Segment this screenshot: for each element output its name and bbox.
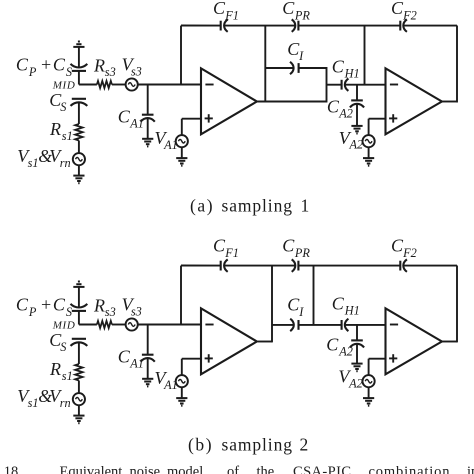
op-amp A1 <box>201 308 257 374</box>
svg-text:A2: A2 <box>338 106 353 120</box>
wire MID to Rs3 <box>79 84 97 86</box>
svg-text:C: C <box>391 236 404 256</box>
wire <box>356 104 358 126</box>
resistor Rs1 <box>75 364 82 381</box>
capacitor CP+CS <box>71 64 88 71</box>
wire A1 output <box>258 341 272 343</box>
wire output up to rail <box>271 266 273 343</box>
wire <box>78 141 80 154</box>
label CF1 <box>213 0 239 22</box>
svg-text:s3: s3 <box>131 305 142 319</box>
wire <box>78 311 80 325</box>
wire CH1 to op-amp A2 inverting input <box>345 84 386 86</box>
wire CI to CH1 <box>299 324 342 326</box>
wire VA2 to op-amp A2 non-inverting input <box>369 358 386 360</box>
wire <box>78 47 80 68</box>
label CP+CS <box>16 295 72 320</box>
svg-text:C: C <box>213 236 226 256</box>
source VA2 <box>363 375 375 387</box>
capacitor CA2 <box>350 100 364 107</box>
wire rail junction down to A2 input node <box>364 26 366 85</box>
wire rail segment <box>224 25 295 27</box>
wire Ct branch left <box>265 67 293 69</box>
label CA1 <box>118 106 144 130</box>
svg-text:C: C <box>327 96 340 116</box>
svg-text:18.EquivalentnoisemodeloftheCS: 18.EquivalentnoisemodeloftheCSA-PICcombi… <box>4 464 474 474</box>
svg-text:C: C <box>391 0 404 18</box>
svg-text:S: S <box>66 305 72 319</box>
wire output up to rail (CF2 feedback) <box>456 26 458 103</box>
ground <box>363 398 374 406</box>
resistor Rs3 <box>97 81 112 88</box>
wire Ct branch right <box>299 67 327 69</box>
op-amp A2 <box>386 68 442 134</box>
wire <box>368 387 370 398</box>
svg-text:rn: rn <box>60 396 71 410</box>
wire Vs3 to op-amp A1 inverting input <box>138 84 201 86</box>
resistor Rs1 <box>75 124 82 141</box>
svg-text:rn: rn <box>60 156 71 170</box>
label CA1 <box>118 346 144 370</box>
label CH1 <box>332 56 360 80</box>
wire <box>181 387 183 398</box>
source Vs3 <box>126 78 138 90</box>
svg-text:(a)sampling1: (a)sampling1 <box>190 195 309 215</box>
wire CH1 to op-amp A2 inverting input <box>345 324 386 326</box>
wire CA1 tap <box>147 325 149 355</box>
svg-text:C: C <box>332 294 345 314</box>
svg-text:S: S <box>60 100 66 114</box>
svg-text:s3: s3 <box>105 65 116 79</box>
svg-text:C: C <box>16 295 29 315</box>
label Vs1&Vrn <box>17 146 70 170</box>
svg-text:H1: H1 <box>344 66 360 80</box>
svg-text:I: I <box>298 305 304 319</box>
svg-text:A1: A1 <box>129 116 144 130</box>
wire short vertical <box>326 67 328 103</box>
label CPR <box>282 0 310 22</box>
svg-text:C: C <box>326 334 339 354</box>
svg-text:C: C <box>16 55 29 75</box>
wire output up to rail (CF2 feedback) <box>456 266 458 343</box>
svg-text:s1: s1 <box>28 156 39 170</box>
wire Vs3 to op-amp A1 inverting input <box>138 324 201 326</box>
wire VA1 to op-amp A1 non-inverting input <box>182 118 201 120</box>
label Vs3 <box>122 55 142 79</box>
svg-text:I: I <box>298 49 304 63</box>
svg-text:C: C <box>53 295 66 315</box>
capacitor CH1 <box>342 319 349 331</box>
wire <box>112 84 126 86</box>
svg-text:(b)sampling2: (b)sampling2 <box>188 435 308 455</box>
wire VA2 to op-amp A2 non-inverting input <box>369 118 386 120</box>
capacitor CI (reset) <box>290 62 299 74</box>
svg-text:A2: A2 <box>338 344 353 358</box>
ground <box>176 398 187 406</box>
svg-text:C: C <box>282 0 295 18</box>
wire rail junction down to CI/CH1 node <box>313 266 315 325</box>
label CF2 <box>391 236 417 260</box>
label CP+CS <box>16 55 72 80</box>
label VA2 <box>338 367 362 391</box>
svg-text:A1: A1 <box>163 378 178 392</box>
wire to CH1 <box>327 84 342 86</box>
capacitor CH1 <box>342 79 349 91</box>
node MID <box>52 79 76 91</box>
capacitor CPR <box>292 259 299 271</box>
ground <box>73 416 84 424</box>
label Rs1 <box>49 119 73 143</box>
wire rail segment <box>298 25 400 27</box>
svg-text:A1: A1 <box>163 138 178 152</box>
label CI <box>287 295 304 319</box>
wire input node up to feedback rail <box>180 26 182 85</box>
label VA2 <box>339 128 363 152</box>
ground <box>142 379 153 387</box>
wire <box>78 102 80 124</box>
svg-text:F1: F1 <box>224 8 239 22</box>
label CA2 <box>327 96 353 120</box>
svg-text:P: P <box>28 65 37 79</box>
label Vs1&Vrn <box>17 386 70 410</box>
wire <box>78 381 80 394</box>
wire <box>368 147 370 158</box>
wire VA1 to op-amp A1 non-inverting input <box>182 358 201 360</box>
svg-text:F1: F1 <box>224 246 239 260</box>
wire to CI <box>272 324 294 326</box>
label CPR <box>282 236 310 260</box>
capacitor CF1 <box>221 19 228 31</box>
wire CA2 tap <box>356 85 358 101</box>
capacitor CA1 <box>141 115 155 122</box>
wire A1 output <box>257 101 327 103</box>
source Vs1&Vrn <box>73 393 85 405</box>
wire <box>181 147 183 158</box>
wire rail segment <box>224 265 295 267</box>
wire <box>112 324 126 326</box>
ground <box>142 139 153 147</box>
wire input node up to feedback rail <box>180 266 182 325</box>
svg-text:C: C <box>332 56 345 76</box>
source VA1 <box>176 375 188 387</box>
label CS <box>49 90 66 114</box>
op-amp A1 <box>201 68 257 134</box>
capacitor CS <box>71 99 88 106</box>
wire CA2 tap <box>356 325 358 341</box>
inverted ground (sensor top plate) <box>73 42 84 47</box>
svg-text:F2: F2 <box>402 246 417 260</box>
source VA1 <box>176 135 188 147</box>
svg-text:s1: s1 <box>28 396 39 410</box>
wire CA1 tap <box>147 85 149 115</box>
wire <box>78 71 80 85</box>
wire rail segment <box>403 25 457 27</box>
wire <box>78 287 80 308</box>
svg-text:F2: F2 <box>402 8 417 22</box>
wire <box>78 405 80 415</box>
label Vs3 <box>122 295 142 319</box>
svg-text:s1: s1 <box>62 369 73 383</box>
wire <box>78 165 80 175</box>
source Vs3 <box>126 318 138 330</box>
svg-text:+: + <box>40 55 52 75</box>
label CF1 <box>213 236 239 260</box>
op-amp A2 <box>386 308 442 374</box>
capacitor CA2 <box>350 340 364 347</box>
ground <box>351 126 362 134</box>
wire A2 output <box>442 101 457 103</box>
svg-text:R: R <box>93 295 105 315</box>
node MID <box>52 319 76 331</box>
label CI <box>287 39 304 63</box>
wire <box>147 118 149 139</box>
svg-text:A1: A1 <box>129 356 144 370</box>
label CF2 <box>391 0 417 22</box>
label Rs1 <box>49 359 73 383</box>
capacitor CPR <box>292 19 299 31</box>
wire rail junction down to Ct branch and A1 output <box>264 26 266 102</box>
svg-text:+: + <box>40 295 52 315</box>
wire A2 output <box>442 341 457 343</box>
wire <box>147 358 149 379</box>
wire rail segment <box>298 265 400 267</box>
capacitor CP+CS <box>71 304 88 311</box>
label Rs3 <box>93 55 116 79</box>
capacitor CF2 <box>400 19 407 31</box>
wire rail segment <box>181 265 221 267</box>
capacitor CS <box>71 339 88 346</box>
svg-text:P: P <box>28 305 37 319</box>
resistor Rs3 <box>97 321 112 328</box>
svg-text:A2: A2 <box>349 138 364 152</box>
capacitor CF2 <box>400 259 407 271</box>
svg-text:s3: s3 <box>105 305 116 319</box>
wire <box>78 342 80 364</box>
label Rs3 <box>93 295 116 319</box>
label CA2 <box>326 334 353 358</box>
svg-text:PR: PR <box>294 246 311 260</box>
ground <box>351 364 362 372</box>
wire MID to Rs3 <box>79 324 97 326</box>
svg-text:H1: H1 <box>344 304 360 318</box>
svg-text:s1: s1 <box>62 129 73 143</box>
label VA1 <box>155 128 178 152</box>
label VA1 <box>155 368 178 392</box>
svg-text:R: R <box>93 55 105 75</box>
capacitor CF1 <box>221 259 228 271</box>
ground <box>176 158 187 166</box>
wire rail segment <box>403 265 457 267</box>
label CS <box>49 330 66 354</box>
svg-text:C: C <box>282 236 295 256</box>
svg-text:S: S <box>60 340 66 354</box>
label CH1 <box>332 294 360 318</box>
svg-text:s3: s3 <box>131 65 142 79</box>
wire rail segment <box>181 25 221 27</box>
svg-text:S: S <box>66 65 72 79</box>
capacitor CA1 <box>141 355 155 362</box>
inverted ground (sensor top plate) <box>73 282 84 287</box>
svg-text:C: C <box>53 55 66 75</box>
svg-text:R: R <box>49 359 61 379</box>
svg-text:C: C <box>118 106 131 126</box>
ground <box>73 176 84 184</box>
wire <box>356 344 358 364</box>
svg-text:C: C <box>287 295 300 315</box>
svg-text:C: C <box>213 0 226 18</box>
ground <box>363 158 374 166</box>
svg-text:R: R <box>49 119 61 139</box>
capacitor CI <box>290 319 298 331</box>
source Vs1&Vrn <box>73 153 85 165</box>
svg-text:PR: PR <box>294 8 311 22</box>
svg-text:A2: A2 <box>348 376 363 390</box>
svg-text:C: C <box>118 346 131 366</box>
source VA2 <box>363 135 375 147</box>
